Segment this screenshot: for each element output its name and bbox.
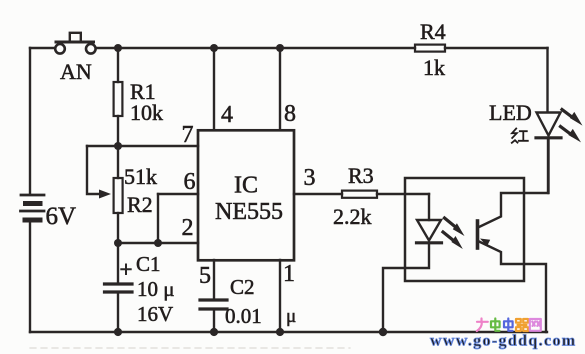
svg-text:NE555: NE555 — [215, 199, 283, 225]
svg-text:3: 3 — [304, 165, 316, 191]
junction node pin1 ground — [276, 328, 284, 336]
svg-text:8: 8 — [284, 101, 296, 127]
svg-text:6: 6 — [184, 169, 196, 195]
svg-text:R4: R4 — [420, 19, 446, 44]
svg-text:R2: R2 — [127, 192, 153, 217]
watermark char qi — [516, 319, 528, 331]
wire pin7 to R1/R2 junction — [87, 145, 198, 147]
svg-text:4: 4 — [221, 102, 233, 128]
pushbutton switch AN — [55, 33, 95, 54]
wire bottom rail — [30, 331, 547, 333]
junction node R2 bottom — [114, 239, 122, 247]
svg-text:2: 2 — [182, 215, 194, 241]
battery 6V — [21, 195, 45, 220]
wire pin6 stub — [158, 193, 198, 195]
resistor R1 — [114, 48, 123, 146]
wire pin 3 to R3 — [294, 193, 342, 195]
svg-text:10k: 10k — [130, 100, 163, 125]
capacitor C2 — [200, 300, 227, 332]
junction node C1 ground — [114, 328, 122, 336]
svg-text:μ: μ — [286, 306, 296, 327]
svg-text:1k: 1k — [423, 55, 445, 80]
junction node pin4 top — [210, 44, 218, 52]
resistor R4 — [415, 45, 445, 52]
svg-text:16V: 16V — [137, 302, 173, 326]
wire left rail lower — [29, 222, 31, 333]
optocoupler box — [405, 178, 524, 281]
wire pin 8 — [279, 48, 281, 130]
junction node pin2 link — [154, 239, 162, 247]
svg-text:6V: 6V — [46, 203, 77, 230]
optocoupler light arrows — [443, 218, 465, 249]
watermark char guang — [477, 319, 488, 332]
watermark site name — [477, 319, 541, 332]
svg-text:IC: IC — [234, 173, 258, 199]
svg-text:1: 1 — [283, 261, 295, 287]
resistor R2 rheostat — [114, 146, 123, 243]
svg-text:C1: C1 — [136, 252, 161, 276]
svg-text:0.01: 0.01 — [225, 304, 262, 328]
wire top rail switch to R1 junction and across to R4 — [96, 47, 415, 49]
LED red indicator — [536, 113, 561, 194]
watermark char dian1 — [491, 319, 500, 331]
wire pin 1 — [279, 260, 281, 332]
op IC NE555 box U1 — [198, 130, 294, 260]
svg-text:7: 7 — [182, 122, 194, 148]
wire pin6 to pin2 vertical link — [157, 194, 159, 243]
svg-text:R3: R3 — [348, 163, 374, 188]
svg-text:10 μ: 10 μ — [137, 277, 175, 301]
wire pin 4 — [213, 48, 215, 130]
svg-text:5: 5 — [199, 263, 211, 289]
faint scan line — [30, 347, 350, 349]
junction node opto ground — [379, 328, 387, 336]
label red hong — [512, 129, 528, 143]
junction node C2 ground — [210, 328, 218, 336]
rheostat arrow head — [99, 190, 111, 199]
wire pin2 row — [118, 242, 198, 244]
wire rheostat wiper bracket — [87, 146, 104, 194]
svg-text:LED: LED — [489, 100, 532, 125]
svg-text:2.2k: 2.2k — [333, 204, 372, 229]
wire pin 5 — [213, 260, 215, 298]
LED emission arrows — [561, 110, 583, 143]
watermark char dian2 — [504, 319, 513, 331]
junction node R1 bottom — [114, 142, 122, 150]
optocoupler phototransistor — [478, 139, 549, 332]
label C1 plus sign — [121, 265, 130, 275]
wire right rail LED anode — [546, 48, 548, 112]
watermark char wang — [530, 319, 541, 331]
transistor emitter arrow head — [480, 239, 490, 247]
svg-text:www.go-gddq.com: www.go-gddq.com — [430, 333, 576, 350]
resistor R3 — [342, 191, 377, 198]
wire left rail upper — [29, 48, 31, 194]
svg-text:C2: C2 — [230, 275, 255, 299]
wire top rail R4 to right corner — [445, 47, 548, 49]
wire R3 to optocoupler — [377, 193, 429, 195]
svg-text:AN: AN — [60, 59, 92, 84]
capacitor C1 electrolytic — [105, 243, 133, 332]
optocoupler LED — [383, 194, 442, 332]
svg-text:51k: 51k — [124, 164, 157, 189]
wire top rail left segment — [30, 47, 54, 49]
junction node R1 top — [114, 44, 122, 52]
junction node pin8 top — [276, 44, 284, 52]
